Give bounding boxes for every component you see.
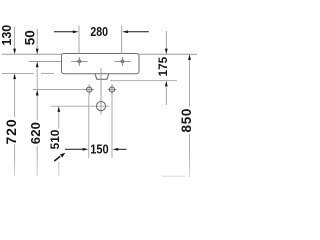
tap hole left xyxy=(71,57,87,66)
svg-text:280: 280 xyxy=(90,25,108,39)
svg-text:720: 720 xyxy=(3,118,19,144)
svg-text:510: 510 xyxy=(48,129,62,149)
dimension 50 upper arrow xyxy=(36,29,39,55)
svg-text:130: 130 xyxy=(0,25,14,46)
fixing hole centre line xyxy=(33,89,85,91)
svg-text:850: 850 xyxy=(179,108,194,133)
dimension 720 line lower part xyxy=(14,144,16,176)
svg-text:150: 150 xyxy=(90,142,109,157)
dimension 510 line lower part xyxy=(58,162,60,176)
fixing hole extension left xyxy=(88,95,90,158)
svg-text:50: 50 xyxy=(23,30,38,45)
dimension 280 right arrow xyxy=(122,30,149,33)
tap hole centre line xyxy=(29,61,62,63)
dimension 850 upper arrow xyxy=(188,54,191,106)
dimension 130 lower arrow xyxy=(13,73,16,117)
dimension 50 lower arrow xyxy=(36,62,39,121)
overflow box xyxy=(95,74,109,79)
wall line xyxy=(2,53,197,55)
dimension 280 left arrow xyxy=(54,30,79,33)
washbasin body xyxy=(62,54,140,74)
drain axis line xyxy=(100,68,102,115)
dimension 150 left arrow xyxy=(65,148,88,151)
dimension 850 line lower part xyxy=(189,134,191,177)
dimension 620 line lower part xyxy=(36,146,38,176)
fixing hole left xyxy=(85,84,94,95)
dimension 150 right arrow xyxy=(113,148,127,151)
drain centre line xyxy=(51,105,110,107)
dimension 130 upper arrow xyxy=(13,27,16,55)
dimension 175 upper arrow xyxy=(165,31,168,54)
dimension 280 extension left xyxy=(78,25,80,53)
tap hole right xyxy=(114,57,130,66)
basin underside extension line xyxy=(2,72,54,74)
dimension 280 extension right xyxy=(121,25,123,53)
svg-text:620: 620 xyxy=(28,122,43,144)
dimension 620 arrow at fixing hole line xyxy=(36,90,39,96)
fixing hole right xyxy=(107,84,116,95)
svg-text:175: 175 xyxy=(156,56,170,76)
floor line xyxy=(162,175,185,177)
drain direction arrow xyxy=(54,153,65,161)
basin bottom extension line xyxy=(110,80,177,82)
dimension 510 arrow xyxy=(57,106,60,128)
drain hole xyxy=(96,102,105,111)
dimension 175 lower arrow xyxy=(165,81,168,105)
fixing hole extension right xyxy=(111,95,113,158)
